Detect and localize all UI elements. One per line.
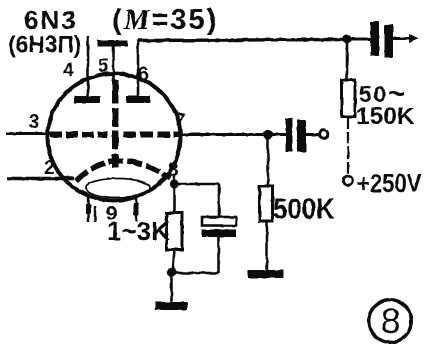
label 1~3K [107,216,170,246]
svg-text:500K: 500K [273,192,335,225]
pin 6 label [138,64,149,85]
anode plate right [126,96,150,103]
svg-text:+250V: +250V [357,169,421,198]
svg-text:150K: 150K [356,103,415,130]
wire pin 7 [181,133,266,136]
shield electrode (dashed bar) [112,80,119,168]
wire pin 2 [7,177,74,180]
svg-text:5: 5 [98,56,109,77]
label 6N3 [24,5,78,35]
wire bypass capacitor down [176,237,219,273]
svg-text:8: 8 [381,302,400,341]
wire junction to input capacitor [268,133,286,136]
heater bowl [86,179,150,198]
svg-text:3: 3 [29,112,40,133]
label +250V [357,169,421,198]
label (6H3P) [8,31,81,58]
pin 3 label [29,112,40,133]
node grid junction [263,130,273,140]
tube V1 envelope [48,74,181,201]
heater lead pin 1 [86,195,91,222]
svg-text:7: 7 [175,111,186,132]
label 50~ [359,77,407,110]
grid right (dashed) [123,132,180,138]
pin 7 label [175,111,186,132]
svg-text:2: 2 [44,158,55,179]
pin 4 lead [87,36,90,97]
wire resistor 1-3K to node [173,250,175,269]
pin 9 label [106,203,117,225]
svg-text:(6Н3П): (6Н3П) [8,31,81,58]
label 150K [356,103,415,130]
wire resistor 50-150K to supply terminal [347,117,349,177]
grid left (dashed) [50,132,107,138]
wire pin 8 stub [173,174,175,184]
wire junction to resistor 50-150K [346,43,349,81]
pin 1 label [94,206,96,222]
svg-text:(М=35): (М=35) [112,4,218,36]
wire capacitor to input terminal [306,133,318,136]
svg-text:4: 4 [63,60,74,81]
pin 5 lead [112,46,115,80]
wire pin 8 to resistor 1-3K [173,188,176,214]
svg-text:6: 6 [138,64,149,85]
capacitor input left plate [286,118,293,152]
pin 8 label [168,160,179,181]
pin 4 label [63,60,74,81]
capacitor bypass bottom plate [202,230,236,238]
resistor 500K [260,186,273,221]
pin 5 label [98,56,109,77]
capacitor coupling right plate [385,25,394,59]
wire junction to resistor 500K [267,137,270,187]
wire pin 3 [6,132,50,135]
wire anode top [138,40,344,41]
resistor 1-3K [167,213,183,250]
terminal +250V [344,176,353,185]
cathode arc [76,161,170,181]
node anode junction [342,34,352,44]
node cathode junction bottom [167,267,177,277]
wire output with arrow [393,34,420,43]
capacitor input right plate [297,120,306,152]
ground right [248,270,284,278]
anode plate left [74,96,100,103]
capacitor coupling left plate [371,22,380,57]
label mu=35 [112,4,218,36]
label 500K [273,192,335,225]
figure number 8 [369,300,412,343]
pin 6 lead [137,40,140,99]
pin 2 label [44,158,55,179]
wire resistor 500K to ground [266,221,269,271]
svg-text:1~3K: 1~3K [107,216,170,246]
capacitor bypass top plate [202,217,237,226]
wire node to ground left [170,276,173,303]
node cathode junction top [170,179,179,188]
resistor 50-150K [342,80,356,117]
input terminal [319,130,328,139]
pin 5 top cap [97,40,128,47]
ground left [155,302,188,310]
heater lead pin 9 [134,196,139,222]
wire cathode to bypass capacitor [175,184,220,217]
wire junction to coupling capacitor [351,38,371,41]
